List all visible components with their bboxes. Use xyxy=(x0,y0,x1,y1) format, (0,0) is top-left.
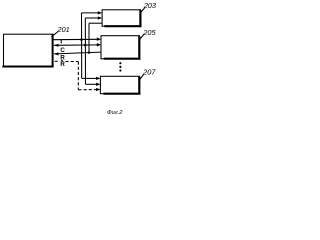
wire V2 bottom branch into 207 xyxy=(86,83,97,85)
svg-text:205: 205 xyxy=(142,28,156,37)
arrowhead into 207 line1 xyxy=(96,77,100,80)
arrowhead into 205 line2 xyxy=(97,43,101,46)
wire V1 vertical bus xyxy=(81,13,83,79)
arrowhead into 207 dashed line xyxy=(96,88,100,91)
arrowhead into 201 (C) xyxy=(54,44,58,47)
node junction V2-L2 xyxy=(84,44,87,47)
wire V2 top branch into 203 xyxy=(85,17,98,19)
wire L1 T-line from 201 to 205 xyxy=(54,38,98,40)
wire L4 dashed R-hat line from 201 xyxy=(55,60,60,62)
label 201 leader xyxy=(51,31,58,36)
node ellipsis dots between 205 and 207 xyxy=(119,62,121,64)
node junction V3-L3 xyxy=(88,51,91,54)
svg-text:R: R xyxy=(60,61,65,68)
wire dashed horizontal into 207 xyxy=(78,89,96,91)
box 203 xyxy=(102,10,141,27)
label 205 leader xyxy=(140,34,145,40)
arrowhead into 207 line2 xyxy=(96,83,100,86)
arrowhead into 205 line1 xyxy=(97,38,101,41)
wire L2 C-line from 201 to 205 xyxy=(54,44,98,46)
wire V2 vertical bus xyxy=(84,18,86,84)
arrowhead into 203 line1 xyxy=(98,11,102,14)
wire dashed vertical down xyxy=(77,62,79,90)
box 207 xyxy=(100,76,140,94)
box 201 xyxy=(2,34,53,67)
wire V3 vertical bus xyxy=(88,23,90,52)
wire V3 top branch into 203 (plain) xyxy=(89,22,102,24)
wire L3 R-line from 201 to 205 xyxy=(54,52,101,54)
svg-text:Фиг.2: Фиг.2 xyxy=(107,110,123,116)
box 205 xyxy=(101,36,140,60)
wire V1 bottom branch into 207 xyxy=(82,77,97,79)
wire V1 top branch into 203 xyxy=(82,12,99,14)
arrowhead into 203 line2 xyxy=(98,16,102,19)
node junction V1-L1 xyxy=(80,38,83,41)
label 203 leader xyxy=(140,7,145,13)
svg-text:207: 207 xyxy=(142,67,156,76)
svg-text:C: C xyxy=(60,47,65,54)
svg-text:203: 203 xyxy=(143,1,157,10)
label T stem xyxy=(60,40,62,44)
svg-text:201: 201 xyxy=(56,25,69,34)
arrowhead into 201 (R) xyxy=(54,52,58,55)
label 207 leader xyxy=(139,74,144,80)
